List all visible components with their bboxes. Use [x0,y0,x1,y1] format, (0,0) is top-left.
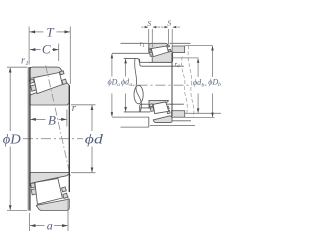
cone back face line (right view) [171,53,173,116]
centerline [23,138,83,140]
right face line [68,85,70,192]
svg-text:ϕd: ϕd [85,131,103,146]
svg-text:a: a [47,219,53,233]
svg-text:a: a [129,82,132,88]
dimension phi da [125,59,127,111]
dimension phi db [173,58,222,113]
inner ring (cone) lower [30,173,70,186]
svg-text:B: B [48,112,56,127]
housing bore lines [121,42,149,44]
dimension T [29,27,70,85]
cage pieces lower [149,104,152,107]
dimension B [30,110,67,127]
dimension S right [161,27,180,45]
tapered roller lower [153,102,169,114]
cage pieces lower right [62,187,67,192]
svg-text:T: T [46,24,54,39]
svg-text:a: a [177,64,180,69]
housing shoulder lines (Da) [112,52,149,54]
housing shoulder face [148,43,150,53]
dimension C [30,44,59,62]
left face double line [27,67,29,211]
svg-text:S: S [147,19,151,28]
load-center diagonal line [46,65,71,177]
tapered roller lower [35,179,63,205]
centerline [120,84,223,86]
svg-text:1: 1 [25,60,28,67]
svg-text:ϕD: ϕD [108,77,118,86]
right break curves (phantom) [182,57,188,114]
dimension phi Da [111,54,113,116]
upper bearing section [29,67,69,105]
outer ring (cup) lower [153,116,172,123]
svg-text:1: 1 [142,44,144,49]
svg-text:C: C [42,42,51,57]
svg-text:ϕD: ϕD [3,131,21,146]
cage pieces lower left [31,183,36,188]
dimension phi D [7,67,27,210]
shaft left break (S-curve with loop) [135,59,142,112]
svg-text:r: r [21,55,25,66]
cone front face setback (S standout) [149,57,153,62]
svg-text:b: b [218,82,221,88]
svg-text:b: b [202,82,205,88]
lower bearing section [149,53,172,123]
dimension phi d [71,105,96,173]
svg-text:ϕD: ϕD [208,78,218,87]
dimension S left [141,27,160,47]
dimension phi Db [185,46,215,118]
housing spacer block bottom [172,111,185,118]
dimension a [30,196,68,231]
lower bearing section [30,173,70,211]
outer ring (cup) lower [36,199,69,210]
upper bearing section (scaled copy) [149,43,173,62]
housing spacer block top (Db) [172,46,185,53]
svg-text:S: S [167,19,171,28]
shaft shoulder + seat lines [124,58,140,62]
inner ring (cone) lower [149,100,168,108]
